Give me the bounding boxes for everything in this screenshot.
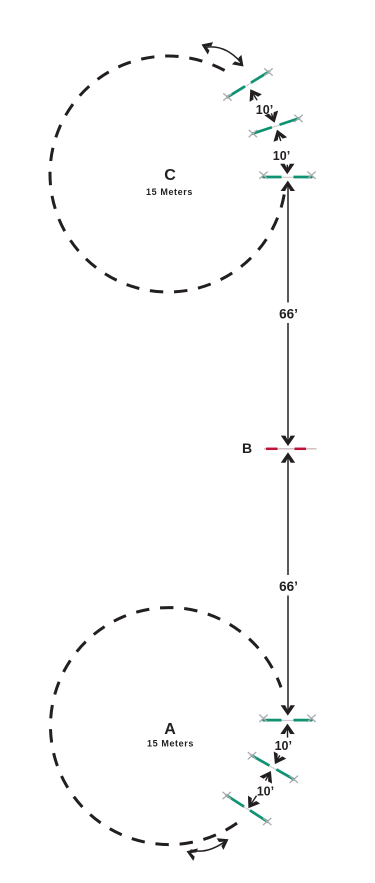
- svg-text:C: C: [164, 167, 176, 184]
- pole A1: [225, 794, 270, 823]
- arrow into pole C3 from above: [286, 165, 288, 171]
- pole A3: [261, 719, 314, 721]
- X end marker: [260, 172, 268, 179]
- arrow into B from below: [281, 452, 295, 462]
- svg-text:66’: 66’: [279, 579, 298, 594]
- X end marker: [224, 94, 232, 101]
- pole C3: [261, 176, 314, 178]
- X end marker: [295, 115, 303, 122]
- arrow into pole A2 from above: [277, 755, 280, 760]
- arrow into pole C2 from below: [278, 133, 281, 141]
- arrow into pole C1: [252, 93, 257, 101]
- X end marker: [260, 715, 268, 722]
- dashed circle C: [50, 56, 284, 292]
- X end marker: [308, 715, 316, 722]
- X end marker: [223, 792, 231, 799]
- svg-text:B: B: [242, 440, 252, 456]
- arrow into pole C2 from above: [271, 113, 273, 119]
- pole B (red dashed): [264, 448, 317, 450]
- curved direction arrow (top): [205, 47, 241, 62]
- pole A2: [250, 754, 296, 780]
- 66ft line lower: [287, 457, 289, 575]
- svg-text:15 Meters: 15 Meters: [146, 187, 193, 197]
- arrow into pole C3 from below (start of 66ft line): [281, 181, 295, 191]
- dashed circle A: [50, 608, 281, 845]
- arrow into B from above: [281, 436, 295, 446]
- arrow into pole A3 from below: [287, 728, 289, 738]
- svg-text:10’: 10’: [257, 785, 274, 799]
- X end marker: [308, 172, 316, 179]
- arrow into pole A2 from below: [266, 775, 269, 781]
- X end marker: [263, 818, 271, 825]
- 66ft line upper: [287, 185, 289, 303]
- svg-text:10’: 10’: [275, 739, 292, 753]
- X end marker: [265, 69, 273, 76]
- curved direction arrow (bottom): [191, 842, 226, 852]
- X end marker: [248, 752, 256, 759]
- pole C2: [251, 118, 301, 135]
- X end marker: [249, 130, 257, 137]
- svg-text:66’: 66’: [279, 307, 298, 322]
- svg-text:A: A: [164, 721, 176, 738]
- X end marker: [290, 776, 298, 783]
- arrow into pole A3 from above: [281, 705, 295, 715]
- svg-text:15 Meters: 15 Meters: [147, 739, 194, 749]
- svg-text:10’: 10’: [273, 149, 290, 163]
- pole C1: [225, 71, 270, 99]
- svg-text:10’: 10’: [256, 103, 273, 117]
- arrow into pole A1: [251, 796, 257, 805]
